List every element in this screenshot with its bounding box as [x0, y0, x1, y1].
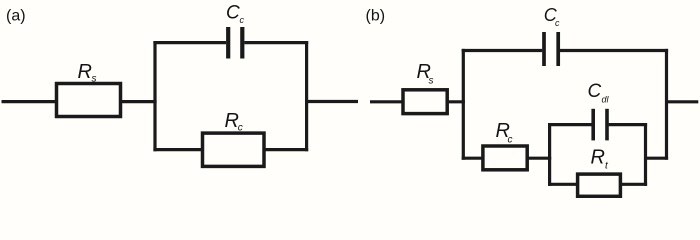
label Rc (b) [496, 120, 513, 145]
svg-text:R: R [78, 61, 92, 83]
wire: (b) Rc to inner loop [527, 157, 551, 160]
svg-text:(a): (a) [6, 8, 26, 25]
wire: (a) left lead [2, 100, 57, 103]
wire: (b) top rail right segment [560, 49, 668, 52]
wire: (a) bottom rail left segment [153, 148, 202, 151]
wire: (a) right vertical of parallel loop [305, 41, 308, 151]
svg-text:C: C [588, 81, 602, 102]
wire: (b) top rail left segment [462, 49, 543, 52]
wire: (b) right lead [667, 100, 699, 103]
resistor Rc (a) [203, 133, 265, 166]
svg-text:c: c [238, 123, 243, 134]
wire: (b) left lead [370, 100, 403, 103]
wire: (b) inner loop to right vertical connector [646, 157, 669, 160]
label Rs (b) [417, 61, 434, 86]
svg-text:C: C [226, 2, 240, 23]
svg-text:R: R [225, 110, 239, 132]
resistor Rs (b) [403, 90, 447, 114]
capacitor Cc (b) [544, 32, 558, 66]
wire: (a) right lead [307, 100, 358, 103]
panel label (b) [366, 8, 386, 25]
panel label (a) [6, 8, 26, 25]
resistor Rt (b) [578, 174, 621, 196]
wire: (b) left vertical of outer loop [462, 49, 465, 160]
label Cdl (b) [588, 81, 610, 105]
wire: (b) inner bottom rail left segment [548, 183, 578, 186]
resistor Rs (a) [57, 84, 121, 117]
wire: (b) inner top rail left segment [548, 123, 592, 126]
wire: (b) bottom branch from node to Rc [462, 157, 483, 160]
wire: (a) left vertical of parallel loop [153, 41, 156, 151]
wire: (b) inner top rail right segment [609, 123, 648, 126]
svg-text:(b): (b) [366, 8, 386, 25]
label Rt (b) [591, 147, 610, 172]
svg-text:s: s [429, 76, 434, 87]
svg-text:t: t [605, 160, 609, 171]
svg-text:c: c [555, 18, 560, 28]
wire: (a) Rs to parallel node [121, 100, 157, 103]
svg-text:R: R [591, 147, 605, 169]
capacitor Cc (a) [228, 27, 242, 59]
wire: (a) top rail left segment [153, 41, 226, 44]
resistor Rc (b) [483, 146, 527, 170]
wire: (b) Rs to parallel node [447, 100, 465, 103]
wire: (b) right vertical of inner loop [644, 123, 647, 186]
svg-text:s: s [92, 74, 97, 85]
wire: (b) left vertical of inner loop [548, 123, 551, 186]
label Cc (a) [226, 2, 245, 25]
label Cc (b) [544, 5, 560, 28]
wire: (a) top rail right segment [244, 41, 308, 44]
svg-text:c: c [240, 15, 245, 25]
label Rs (a) [78, 61, 97, 84]
wire: (b) inner bottom rail right segment [620, 183, 647, 186]
wire: (a) bottom rail right segment [264, 148, 308, 151]
label Rc (a) [225, 110, 243, 133]
capacitor Cdl (b) [593, 109, 607, 141]
svg-text:dl: dl [602, 95, 610, 105]
svg-text:c: c [508, 135, 513, 146]
wire: (b) right vertical of outer loop [665, 49, 668, 160]
